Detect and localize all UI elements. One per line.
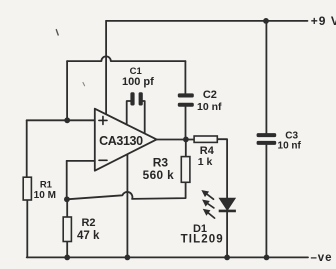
svg-text:1 k: 1 k	[198, 156, 213, 168]
svg-text:+9 V: +9 V	[311, 14, 336, 28]
svg-text:10 nf: 10 nf	[197, 101, 222, 113]
svg-text:560 k: 560 k	[143, 168, 175, 182]
svg-text:10 nf: 10 nf	[278, 140, 302, 151]
svg-text:C2: C2	[203, 89, 217, 101]
svg-text:100 pf: 100 pf	[122, 76, 154, 88]
svg-text:10 M: 10 M	[34, 190, 56, 201]
svg-text:R2: R2	[81, 217, 95, 229]
svg-text:CA3130: CA3130	[99, 134, 143, 148]
svg-text:–ve: –ve	[311, 252, 333, 264]
svg-text:47 k: 47 k	[77, 230, 100, 242]
svg-text:TIL209: TIL209	[181, 233, 224, 245]
svg-text:R1: R1	[40, 179, 53, 190]
